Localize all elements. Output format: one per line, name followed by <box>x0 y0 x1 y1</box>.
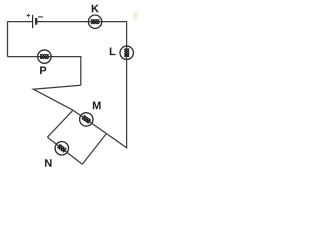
wire lamp K to top-right corner, down to lamp L <box>102 22 127 47</box>
battery label minus <box>38 16 43 18</box>
label L <box>110 48 116 56</box>
battery B1 negative plate (short thick) <box>35 18 37 25</box>
label N <box>45 159 51 167</box>
lamp K <box>88 15 101 28</box>
wire corner V4 up-right to node V2 on M diagonal <box>82 134 106 165</box>
lamp P <box>38 50 51 63</box>
wire V1 down-left to node V3 <box>47 110 73 137</box>
lamp L <box>120 46 133 59</box>
wire diagonal V1 through lamp M to junction J <box>73 110 127 148</box>
lamp N <box>52 139 71 158</box>
label K <box>92 5 99 13</box>
wire top-left horizontal (battery negative lead to left corner) <box>8 22 33 57</box>
wire zigzag to node V1 <box>33 85 81 110</box>
label M <box>93 102 101 110</box>
wire right side: lamp L down to bottom junction J <box>126 59 128 148</box>
wire diagonal V3 through lamp N to corner V4 <box>47 137 82 164</box>
wire left corner to lamp P <box>8 56 38 58</box>
wire battery to lamp K <box>36 21 88 23</box>
label P <box>40 67 46 75</box>
wire lamp P right then down <box>51 57 81 86</box>
faint orange watermark fragment top-right <box>133 12 138 19</box>
battery B1 positive plate (long) <box>32 15 34 28</box>
battery label + <box>27 14 30 17</box>
lamp M <box>77 110 96 129</box>
